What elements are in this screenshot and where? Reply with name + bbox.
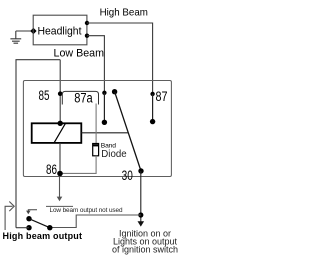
arrow right chevron bbox=[9, 202, 14, 212]
node headlight right bottom bbox=[85, 34, 89, 38]
switch right node bbox=[47, 225, 52, 230]
svg-text:30: 30 bbox=[122, 168, 133, 183]
arrow ignition down bbox=[138, 221, 145, 226]
ground bbox=[10, 31, 21, 43]
svg-text:High Beam: High Beam bbox=[100, 7, 149, 19]
wire left feed into switch bbox=[16, 227, 29, 229]
wire 87 contact bbox=[152, 94, 154, 122]
wire left feed bbox=[16, 60, 60, 228]
relay box bbox=[23, 81, 171, 177]
wire ground to headlight bbox=[16, 30, 33, 32]
arrow 86 down bbox=[57, 197, 63, 202]
node 87a contact bbox=[102, 120, 107, 125]
wire coil to arm bbox=[81, 132, 128, 134]
svg-text:Diode: Diode bbox=[101, 148, 126, 160]
high beam output pointer bbox=[5, 206, 13, 230]
wire high beam bbox=[87, 23, 153, 94]
node 86 bbox=[57, 171, 63, 177]
diode band bbox=[92, 144, 99, 146]
diode lead top bbox=[95, 104, 97, 144]
node pin 87a bbox=[102, 91, 106, 95]
svg-text:Low Beam: Low Beam bbox=[54, 48, 105, 60]
wire 86 down bbox=[59, 177, 61, 198]
svg-text:High beam output: High beam output bbox=[3, 231, 83, 241]
coil diagonal bbox=[54, 123, 66, 143]
diode D1 body bbox=[93, 144, 99, 156]
node pivot bbox=[112, 89, 117, 94]
relay switch arm bbox=[115, 92, 141, 171]
svg-text:87: 87 bbox=[156, 89, 168, 104]
node 30 bbox=[138, 168, 143, 173]
svg-text:of ignition switch: of ignition switch bbox=[112, 245, 178, 255]
switch arm bbox=[29, 219, 50, 228]
diode lead bottom bbox=[60, 156, 96, 174]
label box top line bbox=[46, 205, 73, 207]
node coil top bbox=[58, 121, 63, 126]
wire coil bottom to 86 bbox=[59, 143, 61, 174]
node headlight left bbox=[30, 28, 36, 34]
switch upper node bbox=[26, 216, 31, 221]
node pin 85 bbox=[58, 91, 63, 96]
svg-text:85: 85 bbox=[39, 88, 50, 103]
wire 87a contact bbox=[103, 93, 105, 123]
wire low beam bbox=[87, 36, 104, 93]
relay coil K1 bbox=[32, 123, 82, 143]
switch lower node bbox=[26, 225, 31, 230]
wire 85 bbox=[59, 60, 61, 124]
svg-text:Low beam output not used: Low beam output not used bbox=[50, 207, 123, 214]
label line to switch bbox=[50, 215, 141, 228]
svg-text:87a: 87a bbox=[74, 90, 93, 105]
node pin 87 bbox=[150, 92, 154, 96]
wire 30 down bbox=[140, 171, 142, 223]
node label line bbox=[138, 212, 143, 217]
headlight box bbox=[33, 15, 87, 45]
svg-text:Headlight: Headlight bbox=[38, 26, 82, 38]
svg-text:86: 86 bbox=[46, 162, 57, 177]
node headlight right top bbox=[85, 21, 89, 25]
pointer arrow to switch upper node bbox=[28, 210, 37, 212]
label box 87a bbox=[62, 91, 98, 104]
node 87 contact bbox=[150, 119, 155, 124]
